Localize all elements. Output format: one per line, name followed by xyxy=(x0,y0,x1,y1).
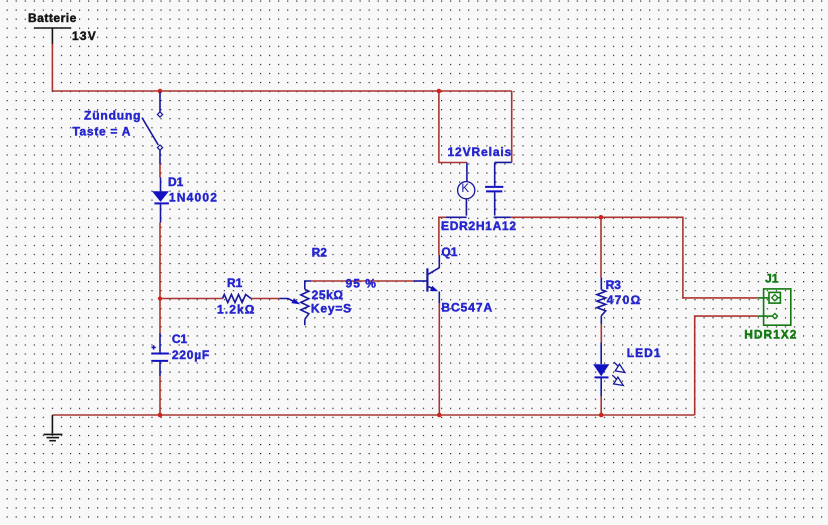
svg-text:K: K xyxy=(461,183,469,195)
svg-text:470Ω: 470Ω xyxy=(607,293,641,307)
svg-text:1.2kΩ: 1.2kΩ xyxy=(217,303,255,317)
svg-text:R1: R1 xyxy=(227,276,243,290)
svg-text:J1: J1 xyxy=(765,272,779,286)
svg-text:13V: 13V xyxy=(72,29,96,43)
svg-text:D1: D1 xyxy=(168,175,184,189)
svg-text:Key=S: Key=S xyxy=(311,302,351,316)
svg-text:R3: R3 xyxy=(606,278,622,292)
svg-text:1N4002: 1N4002 xyxy=(169,190,217,204)
svg-text:25kΩ: 25kΩ xyxy=(312,288,344,302)
svg-text:220µF: 220µF xyxy=(172,348,209,362)
svg-text:C1: C1 xyxy=(172,332,188,346)
svg-text:Zündung: Zündung xyxy=(84,109,141,123)
svg-text:Q1: Q1 xyxy=(441,245,457,259)
svg-text:EDR2H1A12: EDR2H1A12 xyxy=(441,219,516,233)
svg-text:12VRelais: 12VRelais xyxy=(448,145,512,159)
svg-text:BC547A: BC547A xyxy=(441,301,492,315)
svg-text:LED1: LED1 xyxy=(627,346,661,360)
svg-text:Batterie: Batterie xyxy=(28,11,77,25)
svg-text:95 %: 95 % xyxy=(346,277,377,291)
svg-text:HDR1X2: HDR1X2 xyxy=(744,327,796,341)
svg-text:R2: R2 xyxy=(312,246,328,260)
svg-text:Taste = A: Taste = A xyxy=(72,124,130,138)
